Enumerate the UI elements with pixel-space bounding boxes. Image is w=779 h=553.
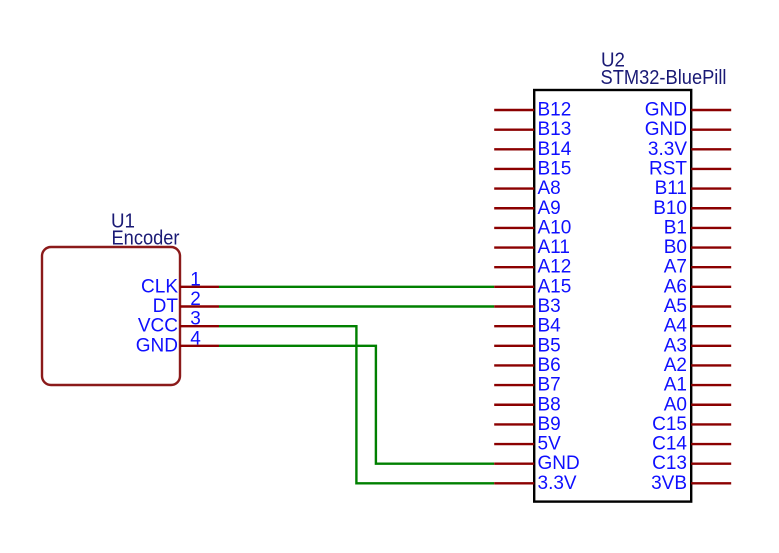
svg-text:A6: A6 (664, 276, 687, 297)
svg-text:A7: A7 (664, 257, 687, 278)
svg-text:A15: A15 (538, 276, 572, 297)
svg-text:A12: A12 (538, 257, 572, 278)
pin GND of U2 right (645, 119, 731, 140)
pin B1 of U2 right (664, 217, 731, 238)
pin GND of U2 left (494, 453, 580, 474)
pin B9 of U2 left (494, 414, 561, 435)
svg-text:B9: B9 (538, 414, 561, 435)
pin B15 of U2 left (494, 158, 571, 179)
pin A4 of U2 right (664, 316, 731, 337)
pin B5 of U2 left (494, 335, 561, 356)
svg-text:A3: A3 (664, 335, 687, 356)
pin A6 of U2 right (664, 276, 731, 297)
svg-text:RST: RST (649, 158, 687, 179)
svg-text:B4: B4 (538, 316, 562, 337)
pin A2 of U2 right (664, 355, 731, 376)
svg-text:GND: GND (645, 100, 687, 121)
svg-text:B5: B5 (538, 335, 561, 356)
pin 3.3V of U2 left (494, 473, 577, 494)
svg-text:GND: GND (136, 335, 178, 356)
encoder U1 body (42, 247, 180, 385)
svg-text:C13: C13 (652, 453, 687, 474)
svg-text:A1: A1 (664, 375, 687, 396)
svg-text:3.3V: 3.3V (538, 473, 577, 494)
pin B8 of U2 left (494, 394, 561, 415)
svg-text:GND: GND (645, 119, 687, 140)
svg-text:B1: B1 (664, 217, 687, 238)
svg-text:B7: B7 (538, 375, 561, 396)
wire VCC to 3.3V (219, 326, 494, 483)
pin 4 GND of U1 (136, 328, 219, 356)
pin A15 of U2 left (494, 276, 571, 297)
svg-text:5V: 5V (538, 434, 562, 455)
pin B10 of U2 right (653, 198, 731, 219)
svg-text:DT: DT (153, 296, 179, 317)
svg-text:A9: A9 (538, 198, 561, 219)
svg-text:3.3V: 3.3V (648, 139, 687, 160)
svg-text:A2: A2 (664, 355, 687, 376)
svg-text:CLK: CLK (141, 276, 178, 297)
pin A11 of U2 left (494, 237, 570, 258)
svg-text:Encoder: Encoder (112, 228, 180, 250)
svg-text:B8: B8 (538, 394, 561, 415)
microcontroller U2 body (534, 90, 691, 502)
pin B13 of U2 left (494, 119, 571, 140)
pin B4 of U2 left (494, 316, 561, 337)
svg-text:B11: B11 (655, 178, 687, 199)
pin B7 of U2 left (494, 375, 561, 396)
pin B14 of U2 left (494, 139, 572, 160)
pin A1 of U2 right (664, 375, 731, 396)
pin 3VB of U2 right (651, 473, 731, 494)
pin B12 of U2 left (494, 100, 571, 121)
pin A5 of U2 right (664, 296, 731, 317)
pin 1 CLK of U1 (141, 269, 219, 297)
wire DT to B3 (219, 305, 494, 307)
svg-text:B6: B6 (538, 355, 561, 376)
svg-text:A11: A11 (538, 237, 570, 258)
wire GND to GND (219, 346, 494, 464)
svg-text:C14: C14 (652, 434, 687, 455)
svg-text:A4: A4 (664, 316, 688, 337)
svg-text:A10: A10 (538, 217, 572, 238)
pin A12 of U2 left (494, 257, 571, 278)
pin RST of U2 right (649, 158, 731, 179)
pin B11 of U2 right (655, 178, 732, 199)
pin GND of U2 right (645, 100, 731, 121)
pin A3 of U2 right (664, 335, 731, 356)
pin A8 of U2 left (494, 178, 561, 199)
pin B3 of U2 left (494, 296, 561, 317)
pin C14 of U2 right (652, 434, 731, 455)
pin 5V of U2 left (494, 434, 561, 455)
svg-text:A8: A8 (538, 178, 561, 199)
pin B6 of U2 left (494, 355, 561, 376)
svg-text:4: 4 (190, 328, 201, 349)
svg-text:B0: B0 (664, 237, 687, 258)
svg-text:VCC: VCC (138, 316, 178, 337)
svg-text:B15: B15 (538, 158, 572, 179)
svg-text:STM32-BluePill: STM32-BluePill (601, 67, 727, 89)
pin A7 of U2 right (664, 257, 731, 278)
svg-text:B13: B13 (538, 119, 572, 140)
svg-text:GND: GND (538, 453, 580, 474)
svg-text:2: 2 (190, 289, 201, 310)
wire CLK to A15 (219, 286, 494, 288)
svg-text:3VB: 3VB (651, 473, 687, 494)
pin B0 of U2 right (664, 237, 731, 258)
svg-text:B3: B3 (538, 296, 561, 317)
svg-text:A5: A5 (664, 296, 687, 317)
svg-text:C15: C15 (652, 414, 687, 435)
pin C15 of U2 right (652, 414, 731, 435)
svg-text:3: 3 (190, 309, 201, 330)
svg-text:1: 1 (190, 269, 201, 290)
pin C13 of U2 right (652, 453, 731, 474)
pin A9 of U2 left (494, 198, 561, 219)
pin A10 of U2 left (494, 217, 571, 238)
pin 3.3V of U2 right (648, 139, 731, 160)
svg-text:B12: B12 (538, 100, 572, 121)
pin 3 VCC of U1 (138, 309, 219, 337)
svg-text:A0: A0 (664, 394, 687, 415)
svg-text:B14: B14 (538, 139, 572, 160)
svg-text:B10: B10 (653, 198, 687, 219)
pin A0 of U2 right (664, 394, 731, 415)
pin 2 DT of U1 (153, 289, 219, 317)
